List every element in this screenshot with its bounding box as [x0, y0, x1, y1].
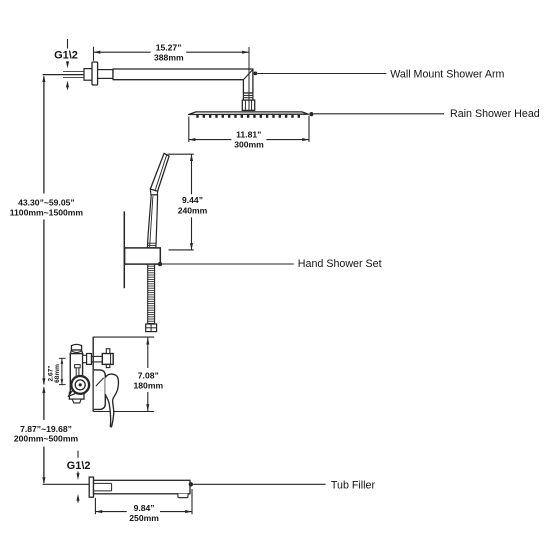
svg-text:G1\2: G1\2: [54, 50, 78, 62]
dimension 7.87"~19.68"/200mm~500mm: [14, 386, 79, 484]
dimension 43.30"~59.05"/1100mm~1500mm: [10, 75, 84, 385]
rain shower head slab: [189, 112, 309, 115]
tub spout outlet: [178, 494, 188, 498]
svg-text:7.08”: 7.08”: [138, 370, 159, 380]
handle pivot pin: [75, 365, 81, 377]
diverter knob bottom tab: [106, 364, 110, 367]
shower hose (coiled): [148, 264, 155, 324]
svg-text:250mm: 250mm: [129, 513, 159, 523]
label Wall Mount Shower Arm: [254, 68, 505, 80]
riser rings: [243, 93, 253, 100]
dimension 9.84"/250mm: [95, 489, 192, 523]
wall pipe stub: [84, 69, 92, 81]
tub spout inner pipe: [94, 483, 112, 491]
riser nut: [242, 100, 254, 110]
svg-text:300mm: 300mm: [234, 140, 264, 150]
riser centerline: [248, 47, 250, 110]
label Hand Shower Set: [158, 258, 382, 270]
svg-text:180mm: 180mm: [133, 380, 163, 390]
svg-text:Wall Mount Shower Arm: Wall Mount Shower Arm: [390, 68, 504, 80]
valve bottom flange: [69, 392, 84, 399]
mixer escutcheon: [94, 370, 106, 410]
rain shower head nozzles: [198, 115, 299, 118]
wire wall reference line (top): [43, 74, 84, 76]
hidden supply nipple lines: [63, 72, 85, 78]
valve bottom cap: [72, 399, 81, 403]
valve outlet coupler: [83, 355, 87, 362]
dimension 11.81"/300mm: [189, 116, 309, 150]
shower arm neck: [98, 70, 113, 79]
diverter knob: [102, 354, 113, 365]
label Tub Filler: [189, 479, 376, 491]
hose end nut: [146, 324, 157, 332]
hand shower grip rings: [148, 243, 156, 245]
svg-text:1100mm~1500mm: 1100mm~1500mm: [10, 208, 84, 218]
svg-text:15.27”: 15.27”: [156, 42, 182, 52]
svg-text:200mm~500mm: 200mm~500mm: [14, 434, 79, 444]
svg-text:240mm: 240mm: [178, 205, 208, 215]
valve top cap: [71, 344, 81, 350]
valve hex waist: [70, 350, 82, 354]
valve plate edge line: [92, 337, 94, 412]
hand shower head: [150, 153, 169, 191]
hand shower neck joint: [150, 189, 157, 195]
dimension 2.67"/68mm: [48, 358, 66, 384]
dimension 9.44"/240mm: [168, 154, 208, 250]
label G1\2 (tub spout thread): [67, 451, 91, 503]
tub spout flange: [89, 477, 93, 497]
svg-text:43.30”~59.05”: 43.30”~59.05”: [18, 197, 75, 207]
tub spout body: [94, 480, 191, 494]
svg-text:Rain Shower Head: Rain Shower Head: [450, 108, 540, 120]
svg-text:Hand Shower Set: Hand Shower Set: [298, 258, 382, 270]
dimension 7.08"/180mm: [93, 337, 163, 411]
svg-text:G1\2: G1\2: [67, 460, 91, 472]
mixer lever handle: [96, 374, 119, 427]
valve vertical body: [70, 354, 82, 393]
shower arm escutcheon: [92, 62, 98, 85]
hand shower handle: [147, 195, 157, 248]
svg-text:388mm: 388mm: [154, 52, 184, 62]
svg-text:Tub Filler: Tub Filler: [331, 479, 376, 491]
svg-text:9.84”: 9.84”: [134, 503, 155, 513]
wire wall reference line (bottom): [43, 483, 90, 485]
label Rain Shower Head: [309, 108, 539, 120]
svg-text:7.87”~19.68”: 7.87”~19.68”: [20, 424, 72, 434]
svg-text:68mm: 68mm: [54, 364, 61, 383]
wall mount shower arm body (L-shape with riser): [113, 69, 253, 93]
wall rail line: [123, 211, 125, 288]
dimension 15.27"/388mm: [94, 42, 249, 62]
handle pivot knob: [68, 376, 89, 396]
label G1\2 (shower arm thread): [54, 39, 78, 90]
valve outlet neck: [91, 356, 102, 362]
svg-text:11.81”: 11.81”: [236, 130, 261, 140]
valve outlet nut: [87, 354, 92, 365]
hand shower bracket: [125, 248, 161, 264]
diverter knob top tab: [106, 349, 110, 354]
svg-text:9.44”: 9.44”: [182, 195, 203, 205]
